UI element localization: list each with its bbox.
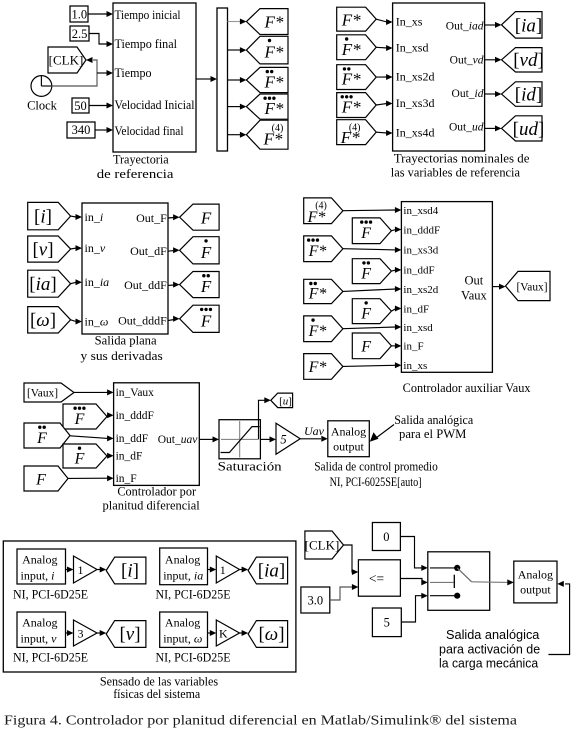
svg-text:in_F: in_F — [116, 473, 137, 485]
svg-text:Tiempo: Tiempo — [115, 66, 152, 80]
wire 340 to Velocidad final — [95, 129, 107, 131]
svg-text:2.5: 2.5 — [72, 27, 88, 41]
svg-text:la carga mecánica: la carga mecánica — [439, 657, 538, 671]
svg-text:input, i: input, i — [21, 569, 55, 583]
wire [w] to in_w — [71, 320, 76, 322]
svg-text:Out_iad: Out_iad — [446, 20, 484, 32]
wire F* to in_xs — [343, 365, 396, 366]
wire CLK to relational — [344, 545, 354, 572]
wire 3.0 to relational — [330, 587, 353, 600]
svg-text:output: output — [333, 439, 364, 453]
svg-text:in_dF: in_dF — [403, 303, 429, 315]
svg-text:Trayectorias nominales de: Trayectorias nominales de — [394, 152, 530, 166]
svg-text:Analog: Analog — [331, 424, 366, 438]
svg-text:Sensado de las variables: Sensado de las variables — [100, 674, 218, 688]
svg-text:1.0: 1.0 — [71, 7, 87, 21]
svg-text:in_F: in_F — [403, 341, 423, 353]
goto tag [ia] f — [248, 557, 288, 584]
goto tag F c — [180, 204, 220, 230]
wire dF to in_dF — [391, 309, 396, 312]
wire dF* to In_xsd — [376, 46, 387, 49]
svg-text:[vd]: [vd] — [513, 50, 544, 71]
wire demux out 2 — [228, 49, 242, 51]
from tag [CLK] bottom — [305, 531, 344, 559]
from tag ddF e — [24, 423, 70, 448]
svg-text:[ia]: [ia] — [258, 561, 285, 582]
wire Out_vd to [vd] — [485, 59, 495, 61]
gain 1 ia — [216, 556, 239, 583]
analog output block bottom — [514, 561, 557, 603]
constant block 5 — [372, 608, 401, 637]
svg-text:in_v: in_v — [85, 241, 106, 255]
from tag F e — [24, 466, 68, 491]
svg-text:F*: F* — [263, 130, 283, 149]
svg-text:[u]: [u] — [279, 395, 292, 407]
svg-text:Analog: Analog — [165, 553, 200, 567]
svg-text:In_xsd: In_xsd — [396, 40, 429, 54]
wire F to in_F — [391, 345, 396, 347]
goto tag [w] f — [248, 621, 288, 648]
wire [i] to in_i — [71, 215, 76, 218]
svg-text:Out_vd: Out_vd — [450, 54, 484, 66]
svg-text:in_ω: in_ω — [85, 314, 109, 328]
svg-text:Tiempo inicial: Tiempo inicial — [115, 8, 181, 22]
wire gain 5 to analog output — [300, 438, 321, 440]
wire gain to [i] — [97, 569, 100, 571]
svg-text:in_dddF: in_dddF — [403, 224, 440, 236]
svg-text:F*: F* — [264, 13, 284, 32]
svg-text:50: 50 — [74, 99, 87, 113]
svg-text:Out_dF: Out_dF — [130, 244, 167, 258]
svg-text:Clock: Clock — [27, 99, 58, 113]
svg-text:Analog: Analog — [165, 616, 200, 630]
from tag [ia] c — [28, 270, 71, 297]
goto tag ddF* ref — [246, 67, 288, 92]
goto tag [ia] b — [502, 12, 543, 38]
wire analog input ia to gain — [208, 569, 211, 571]
svg-text:NI, PCI-6D25E: NI, PCI-6D25E — [13, 651, 88, 665]
svg-text:5: 5 — [384, 615, 390, 629]
svg-text:F: F — [360, 265, 371, 282]
svg-text:Figura 4. Controlador por plan: Figura 4. Controlador por planitud difer… — [4, 713, 517, 728]
svg-text:input, ω: input, ω — [163, 632, 202, 646]
svg-text:F*: F* — [340, 128, 360, 147]
svg-text:F*: F* — [264, 99, 284, 118]
wire saturation to gain 5 — [260, 438, 270, 440]
svg-text:F*: F* — [308, 286, 327, 303]
svg-text:Salida analógica: Salida analógica — [394, 413, 473, 427]
svg-text:Saturación: Saturación — [218, 459, 283, 473]
svg-text:in_ddF: in_ddF — [116, 433, 149, 445]
svg-text:in_ia: in_ia — [85, 275, 110, 289]
wire 5 to switch — [401, 596, 422, 622]
wire gain to [ia] — [240, 569, 243, 571]
wire clock branch to Tiempo — [97, 72, 107, 74]
svg-text:F*: F* — [264, 43, 284, 62]
wire relational to switch — [400, 579, 423, 583]
wire Out_id to [id] — [485, 93, 495, 95]
svg-text:para activación de: para activación de — [439, 642, 540, 656]
svg-text:físicas del sistema: físicas del sistema — [113, 687, 200, 701]
svg-text:Trayectoria: Trayectoria — [113, 152, 169, 166]
from tag dF* d — [304, 316, 343, 342]
svg-text:F: F — [360, 225, 371, 242]
svg-text:[CLK]: [CLK] — [49, 53, 84, 68]
svg-text:3: 3 — [78, 627, 84, 641]
goto tag [u] — [271, 393, 293, 408]
wire Out_iad to [ia] — [485, 24, 495, 26]
from tag F* d — [304, 354, 343, 380]
wire ddF* to in_xs2d — [343, 289, 396, 291]
constant block 1.0 — [70, 6, 88, 22]
wire demux out 4 — [228, 106, 242, 108]
wire Out_dddF to dddF — [168, 320, 174, 321]
analog input w block — [160, 612, 208, 647]
from tag ddF* b3 — [337, 65, 377, 90]
svg-text:F: F — [74, 450, 85, 467]
svg-text:Controlador auxiliar Vaux: Controlador auxiliar Vaux — [403, 381, 532, 395]
clock block — [31, 76, 52, 97]
svg-text:y sus derivadas: y sus derivadas — [81, 349, 163, 363]
svg-text:[Vaux]: [Vaux] — [27, 386, 58, 400]
wire [Vaux] to in_Vaux — [74, 391, 108, 393]
wire Out_uav to saturation — [199, 438, 213, 440]
svg-text:[ω]: [ω] — [258, 624, 284, 645]
svg-text:Velocidad final: Velocidad final — [115, 124, 184, 138]
svg-text:Out_ddF: Out_ddF — [124, 278, 167, 292]
svg-text:[id]: [id] — [515, 84, 542, 105]
wire ddF to in_ddF — [391, 270, 396, 271]
svg-text:5: 5 — [280, 432, 286, 446]
svg-text:de referencia: de referencia — [97, 167, 174, 181]
wire [v] to in_v — [71, 247, 76, 250]
svg-text:NI, PCI-6D25E: NI, PCI-6D25E — [156, 651, 231, 665]
relational operator block — [358, 560, 400, 596]
from tag F*(4) b5 — [337, 120, 377, 145]
wire branch to [u] — [259, 400, 265, 439]
from tag [i] c — [28, 202, 71, 229]
svg-text:In_xs: In_xs — [396, 14, 423, 28]
wire dF to in_dF e — [107, 455, 108, 457]
sensado outer box — [3, 541, 296, 672]
svg-text:[ud]: [ud] — [513, 119, 545, 140]
goto tag [id] b — [502, 82, 543, 107]
goto tag ddF c — [180, 272, 220, 298]
svg-text:F: F — [36, 430, 47, 447]
svg-text:[ia]: [ia] — [515, 15, 542, 36]
goto tag dddF* ref — [246, 94, 288, 119]
svg-text:[Vaux]: [Vaux] — [517, 280, 548, 294]
svg-text:Velocidad Inicial: Velocidad Inicial — [115, 98, 195, 112]
from tag dddF* d — [304, 236, 343, 262]
svg-text:in_xs2d: in_xs2d — [403, 284, 438, 296]
from tag ddF* d — [304, 279, 343, 303]
svg-text:in_xs: in_xs — [403, 360, 427, 372]
wire demux out 5 — [228, 134, 242, 136]
svg-text:In_xs4d: In_xs4d — [396, 126, 435, 140]
svg-text:in_Vaux: in_Vaux — [116, 387, 155, 399]
constant block 2.5 — [70, 26, 89, 41]
svg-text:F: F — [35, 471, 46, 488]
svg-text:[v]: [v] — [32, 240, 53, 261]
svg-text:in_ddF: in_ddF — [403, 265, 434, 277]
from tag dF d — [352, 299, 391, 324]
wire F* to In_xs — [376, 19, 387, 22]
svg-text:[i]: [i] — [121, 561, 139, 582]
subsystem Salida plana — [82, 203, 168, 334]
from tag dddF d — [352, 218, 391, 244]
wire Out Vaux to [Vaux] — [492, 286, 499, 288]
svg-text:las variables de referencia: las variables de referencia — [391, 166, 521, 180]
svg-text:Analog: Analog — [22, 616, 57, 630]
svg-text:Out_ud: Out_ud — [449, 122, 484, 134]
wire Out_ud to [ud] — [485, 127, 495, 129]
constant block 3.0 — [301, 587, 330, 613]
wire analog input w to gain — [208, 632, 211, 634]
gain 3 v — [74, 620, 98, 646]
svg-text:NI, PCI-6D25E: NI, PCI-6D25E — [13, 588, 88, 602]
wire F*(4) to in_xsd4 — [343, 209, 396, 212]
annotation arrow to analog output pwm — [374, 425, 394, 440]
svg-text:in_dddF: in_dddF — [116, 410, 154, 422]
svg-text:[i]: [i] — [34, 207, 52, 228]
from tag [CLK] top — [48, 47, 86, 73]
wire dF* to in_xsd — [343, 327, 396, 329]
goto tag F* ref — [246, 9, 288, 35]
analog input ia block — [160, 548, 208, 585]
svg-text:In_xs3d: In_xs3d — [396, 96, 435, 110]
svg-text:0: 0 — [383, 530, 389, 544]
goto tag F*(4) ref — [246, 120, 288, 149]
analog input i block — [17, 549, 66, 584]
svg-text:Salida plana: Salida plana — [95, 334, 157, 348]
from tag ddF d — [352, 259, 391, 284]
wire switch to analog output — [472, 581, 508, 584]
svg-text:1: 1 — [78, 563, 84, 577]
svg-text:[ω]: [ω] — [30, 310, 56, 331]
svg-text:F*: F* — [341, 98, 361, 117]
wire F to in_F e — [68, 477, 108, 479]
svg-text:F: F — [360, 305, 371, 322]
wire [ia] to in_ia — [71, 282, 76, 283]
wire dddF to in_dddF e — [107, 415, 108, 416]
svg-text:Controlador por: Controlador por — [117, 484, 197, 498]
svg-text:Out: Out — [465, 274, 484, 288]
svg-text:planitud diferencial: planitud diferencial — [103, 499, 201, 513]
subsystem Trayectorias nominales — [393, 3, 485, 151]
svg-text:[v]: [v] — [119, 624, 140, 645]
subsystem Controlador auxiliar Vaux — [401, 202, 492, 373]
svg-text:F: F — [74, 411, 85, 428]
wire 0 to switch — [400, 537, 422, 568]
svg-text:F: F — [200, 208, 212, 227]
goto tag [ud] b — [502, 116, 543, 141]
wire Out_dF to dF — [168, 250, 174, 253]
svg-text:F*: F* — [264, 73, 284, 92]
from tag dddF* b4 — [337, 93, 377, 118]
constant block 0 — [372, 523, 400, 551]
wire dddF* to In_xs3d — [376, 104, 387, 106]
svg-text:Out_uav: Out_uav — [158, 434, 199, 446]
switch block — [428, 552, 490, 611]
from tag [w] c — [28, 307, 71, 333]
svg-text:NI, PCI-6025SE[auto]: NI, PCI-6025SE[auto] — [330, 475, 422, 489]
svg-text:[ia]: [ia] — [29, 274, 56, 295]
from tag [Vaux] e — [24, 383, 74, 402]
wire gain to [w] — [240, 632, 243, 634]
from tag F* b1 — [337, 7, 377, 31]
goto tag dddF c — [180, 305, 220, 332]
svg-text:in_xsd: in_xsd — [403, 322, 433, 334]
goto tag [v] f — [106, 621, 146, 648]
wire Out_ddF to ddF — [168, 284, 174, 286]
svg-text:F: F — [200, 243, 212, 262]
svg-text:F*: F* — [341, 40, 361, 59]
svg-text:para el PWM: para el PWM — [399, 427, 466, 441]
svg-text:Analog: Analog — [22, 553, 57, 567]
goto tag dF c — [180, 237, 220, 264]
gain 5 — [276, 423, 300, 454]
subsystem Trayectoria de referencia — [113, 3, 196, 152]
wire analog input v to gain — [66, 632, 69, 634]
svg-text:output: output — [520, 582, 551, 596]
svg-text:F: F — [200, 311, 212, 330]
from tag [v] c — [28, 236, 71, 262]
svg-text:<=: <= — [369, 571, 384, 586]
svg-text:K: K — [219, 627, 228, 641]
svg-text:Out_F: Out_F — [136, 211, 167, 225]
from tag dF e — [63, 444, 107, 468]
wire 50 to Velocidad Inicial — [89, 105, 107, 107]
svg-text:[CLK]: [CLK] — [305, 538, 340, 553]
from tag F d — [352, 333, 391, 359]
svg-text:in_i: in_i — [85, 210, 104, 224]
svg-text:input, ia: input, ia — [163, 569, 203, 583]
subsystem Controlador por planitud diferencial — [114, 383, 200, 486]
wire gain to [v] — [97, 632, 100, 634]
goto tag [Vaux] — [506, 271, 551, 300]
svg-text:input, v: input, v — [21, 632, 58, 646]
svg-text:Tiempo final: Tiempo final — [115, 37, 178, 51]
wire demux out 3 — [228, 79, 242, 81]
demux — [217, 8, 228, 151]
from tag F*(4) d — [304, 198, 343, 224]
svg-text:F*: F* — [341, 10, 361, 29]
svg-text:In_xs2d: In_xs2d — [396, 70, 435, 84]
constant block 50 — [72, 98, 89, 113]
annotation wire to analog output — [548, 584, 569, 655]
svg-text:F: F — [200, 277, 212, 296]
from tag dddF e — [63, 404, 107, 429]
goto tag [vd] b — [502, 48, 543, 72]
wire ddF to in_ddF e — [70, 436, 108, 439]
svg-text:Out_dddF: Out_dddF — [118, 313, 167, 327]
svg-text:Vaux: Vaux — [461, 288, 487, 302]
svg-text:NI, PCI-6D25E: NI, PCI-6D25E — [156, 588, 231, 602]
wire dddF to in_dddF — [391, 230, 396, 231]
wire Out_F to F — [168, 217, 174, 220]
wire dddF* to in_xs3d — [343, 249, 396, 250]
svg-text:F*: F* — [307, 209, 326, 226]
svg-text:in_dF: in_dF — [116, 451, 143, 463]
wire demux out 1 — [228, 21, 242, 23]
wire clock to CLK tag — [52, 60, 97, 86]
svg-text:Analog: Analog — [518, 567, 553, 581]
svg-text:F*: F* — [308, 243, 327, 260]
svg-text:F*: F* — [308, 323, 327, 340]
saturation block — [219, 420, 260, 459]
gain K w — [216, 620, 239, 646]
svg-text:Out_id: Out_id — [452, 88, 484, 100]
wire F*(4) to In_xs4d — [376, 131, 387, 134]
wire analog input i to gain — [66, 569, 69, 571]
svg-text:Salida analógica: Salida analógica — [446, 628, 539, 642]
svg-text:in_xsd4: in_xsd4 — [403, 205, 438, 217]
analog output block pwm — [328, 421, 370, 457]
svg-text:in_xs3d: in_xs3d — [403, 245, 438, 257]
svg-text:1: 1 — [220, 563, 226, 577]
gain 1 i — [74, 556, 98, 583]
wire 1.0 to Tiempo inicial — [88, 13, 107, 15]
goto tag dF* ref — [246, 36, 288, 64]
wire 2.5 to Tiempo final — [89, 34, 107, 45]
svg-text:Salida de control promedio: Salida de control promedio — [314, 459, 438, 473]
analog input v block — [17, 612, 66, 647]
svg-text:3.0: 3.0 — [307, 593, 323, 607]
svg-text:340: 340 — [72, 123, 91, 137]
svg-text:F*: F* — [308, 359, 327, 376]
svg-text:F: F — [360, 339, 371, 356]
svg-text:F*: F* — [341, 70, 361, 89]
constant block 340 — [67, 122, 95, 138]
svg-text:Uav: Uav — [304, 424, 325, 438]
from tag dF* b2 — [337, 35, 377, 60]
wire subsystem to demux — [196, 78, 211, 80]
wire ddF* to In_xs2d — [376, 76, 387, 78]
goto tag [i] f — [106, 557, 146, 584]
